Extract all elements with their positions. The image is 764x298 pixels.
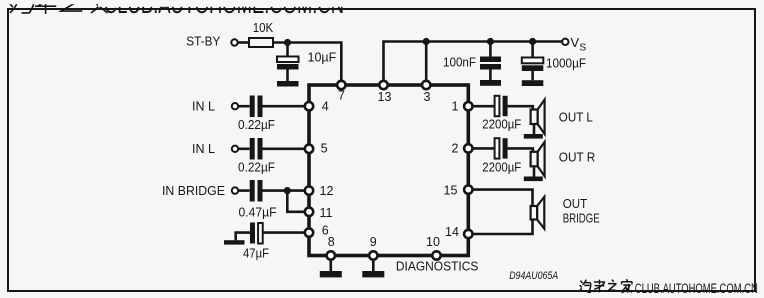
svg-text:4: 4 <box>322 99 329 113</box>
svg-text:12: 12 <box>320 184 334 198</box>
svg-text:BRIDGE: BRIDGE <box>563 211 600 225</box>
svg-text:15: 15 <box>444 184 458 198</box>
capacitor C4 0.22uF <box>250 96 263 118</box>
wire terminal to C6 <box>238 189 250 192</box>
node IN L terminal 1 <box>232 103 238 109</box>
svg-text:8: 8 <box>328 235 335 249</box>
junction rail pin3 <box>423 38 430 45</box>
watermark bottom <box>579 279 758 296</box>
svg-text:2200µF: 2200µF <box>482 117 521 131</box>
capacitor C6 0.47uF <box>250 180 263 202</box>
node IN BRIDGE terminal <box>232 187 238 193</box>
svg-text:IN BRIDGE: IN BRIDGE <box>162 184 225 198</box>
speaker LS1 OUT L <box>531 100 545 134</box>
capacitor C8 2200uF <box>495 96 508 116</box>
ground for C7 <box>224 233 250 245</box>
wire Vs rail <box>384 42 563 81</box>
pin 4 <box>305 102 313 110</box>
label OUT BRIDGE <box>563 197 600 225</box>
svg-text:1: 1 <box>452 100 459 114</box>
svg-text:10µF: 10µF <box>308 51 337 65</box>
pin 1 <box>464 102 472 110</box>
pin 9 <box>369 251 377 259</box>
capacitor C2 100nF <box>480 42 501 81</box>
pin 2 <box>464 144 472 152</box>
pin 10 <box>432 251 440 259</box>
wire R1 to pin 7 <box>273 43 341 81</box>
svg-text:OUT: OUT <box>563 197 588 211</box>
svg-text:S: S <box>579 42 586 54</box>
ground below C1 <box>277 81 299 87</box>
wire terminal to C4 <box>238 105 250 108</box>
svg-text:ST-BY: ST-BY <box>186 35 221 49</box>
wire pin 1 to C8 <box>473 105 495 108</box>
svg-text:47µF: 47µF <box>243 247 269 261</box>
capacitor C1 10uF <box>277 43 299 82</box>
svg-text:14: 14 <box>445 225 459 239</box>
svg-text:10K: 10K <box>253 21 274 35</box>
svg-text:100nF: 100nF <box>443 56 476 70</box>
capacitor C9 2200uF <box>495 138 508 158</box>
svg-text:0.22µF: 0.22µF <box>238 160 275 174</box>
capacitor C5 0.22uF <box>250 138 263 160</box>
capacitor C3 1000uF <box>522 42 544 81</box>
wire C4 to pin 4 <box>263 105 306 108</box>
wire C6 to pin 12 <box>263 189 306 192</box>
svg-text:9: 9 <box>370 235 377 249</box>
pin 7 <box>337 81 345 89</box>
ground below pin 9 <box>362 260 384 277</box>
ground below C2 <box>480 80 501 86</box>
wire ST-BY to R1 <box>238 41 249 44</box>
watermark top <box>0 0 764 19</box>
wire bridge node to pin 11 <box>287 191 305 212</box>
svg-text:OUT R: OUT R <box>559 151 596 165</box>
pin 13 <box>379 81 387 89</box>
pin 8 <box>327 251 335 259</box>
wire pin 15 to speaker LS3 <box>473 190 533 206</box>
wire speaker LS3 to pin 14 <box>473 220 533 235</box>
pin 14 <box>464 230 472 238</box>
svg-text:IN L: IN L <box>192 142 215 156</box>
pin 11 <box>305 208 313 216</box>
ground below C3 <box>522 80 544 86</box>
pin 6 <box>305 228 313 236</box>
svg-text:5: 5 <box>321 141 328 155</box>
svg-text:0.22µF: 0.22µF <box>238 118 275 132</box>
wire C9 to speaker LS2 <box>508 148 533 151</box>
node ST-BY terminal <box>231 39 237 45</box>
svg-text:0.47µF: 0.47µF <box>239 205 277 219</box>
svg-text:13: 13 <box>378 90 392 104</box>
pin 3 <box>422 81 430 89</box>
pin 5 <box>305 145 313 153</box>
junction rail C3 <box>529 38 536 45</box>
svg-text:V: V <box>571 35 580 50</box>
ground below pin 8 <box>320 260 342 277</box>
speaker LS2 OUT R <box>531 142 545 177</box>
op-amp U1 TDA power amplifier box <box>309 85 468 256</box>
pin 12 <box>305 186 313 194</box>
wire rail to pin 3 <box>425 42 428 81</box>
junction rail C2 <box>487 38 494 45</box>
svg-text:DIAGNOSTICS: DIAGNOSTICS <box>396 260 479 274</box>
ground below LS1 <box>524 134 543 139</box>
svg-text:3: 3 <box>424 90 431 104</box>
svg-text:7: 7 <box>338 89 345 103</box>
svg-text:OUT L: OUT L <box>559 111 593 125</box>
svg-text:IN L: IN L <box>192 99 215 113</box>
label VS <box>571 35 587 54</box>
pin 15 <box>464 185 472 193</box>
speaker LS3 OUT BRIDGE <box>531 197 545 229</box>
svg-text:CLUB.AUTOHOME.COM.CN: CLUB.AUTOHOME.COM.CN <box>635 281 758 296</box>
svg-text:11: 11 <box>320 206 333 220</box>
wire C5 to pin 5 <box>263 148 306 151</box>
wire C8 to speaker LS1 <box>508 106 533 109</box>
svg-text:10: 10 <box>426 235 440 249</box>
svg-text:2200µF: 2200µF <box>482 160 521 174</box>
svg-text:1000µF: 1000µF <box>546 57 586 71</box>
node VS terminal <box>562 39 568 45</box>
resistor R1 10K <box>249 38 273 47</box>
wire terminal to C5 <box>238 148 250 151</box>
wire pin 2 to C9 <box>473 147 495 150</box>
junction bridge node <box>284 187 291 194</box>
svg-text:D94AU065A: D94AU065A <box>509 270 558 282</box>
node IN L terminal 2 <box>232 146 238 152</box>
capacitor C7 47uF <box>250 223 305 244</box>
junction ST-BY node <box>284 39 291 46</box>
ground below LS2 <box>524 177 543 182</box>
svg-text:2: 2 <box>452 142 459 156</box>
